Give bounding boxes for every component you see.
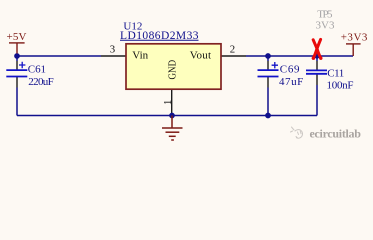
svg-text:C69: C69 (280, 63, 300, 75)
svg-text:3: 3 (110, 43, 115, 55)
svg-text:1: 1 (163, 100, 174, 105)
svg-text:+3V3: +3V3 (341, 31, 368, 43)
svg-text:C11: C11 (327, 67, 344, 79)
svg-text:47uF: 47uF (279, 76, 303, 88)
svg-text:3V3: 3V3 (316, 20, 336, 32)
svg-text:220uF: 220uF (28, 76, 53, 88)
svg-text:2: 2 (230, 43, 235, 55)
svg-text:GND: GND (166, 60, 178, 80)
svg-text:Vin: Vin (132, 49, 148, 61)
svg-text:100nF: 100nF (327, 80, 354, 92)
svg-text:Vout: Vout (190, 50, 211, 62)
svg-text:ecircuitlab: ecircuitlab (310, 127, 362, 141)
svg-text:C61: C61 (28, 63, 46, 75)
svg-text:+5V: +5V (7, 31, 27, 43)
svg-text:TP5: TP5 (317, 8, 333, 20)
